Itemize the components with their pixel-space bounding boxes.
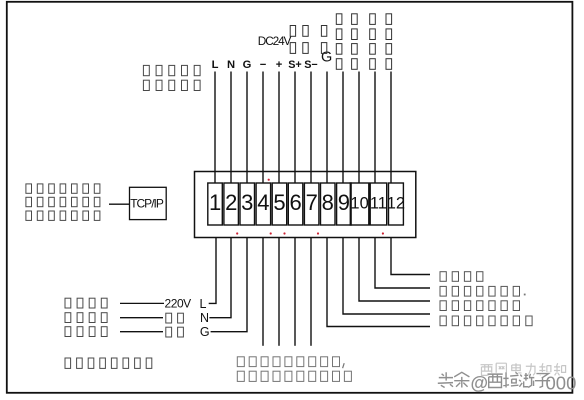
svg-text:4: 4 — [257, 190, 269, 215]
CJK caption left (3 rows x 7 boxes) — [26, 184, 100, 221]
red mark bottom strip — [382, 232, 384, 234]
terminal 7 — [304, 183, 319, 225]
svg-text:N: N — [227, 59, 235, 71]
svg-text:L: L — [212, 59, 219, 71]
wire from terminal 5 down — [278, 238, 280, 346]
vertical CJK label above terminal 8 (G) — [321, 26, 326, 54]
CJK pair row N — [166, 313, 184, 323]
terminal 8 — [321, 183, 336, 225]
svg-text:1: 1 — [209, 190, 221, 215]
terminal 3 — [240, 183, 255, 225]
svg-text:8: 8 — [322, 190, 334, 215]
CJK caption top-left (untitled glyph boxes) — [143, 65, 200, 90]
wire from caption to TCP/IP box — [109, 203, 130, 205]
wire from terminal 9 to right label row — [343, 238, 430, 315]
wire from terminal 4 down — [262, 238, 264, 346]
wire from top into terminal 1 — [214, 72, 216, 184]
red mark bottom strip — [283, 232, 285, 234]
wire from terminal 2 down to N — [209, 238, 231, 318]
vertical CJK label above terminal 11 — [370, 14, 376, 70]
wire from terminal 10 to right label row — [359, 238, 430, 302]
CJK caption right row 4 (8 boxes) — [440, 316, 532, 326]
wire from terminal 7 down — [310, 238, 312, 346]
terminal 2 — [224, 183, 239, 225]
red mark top strip — [268, 179, 270, 181]
svg-text:2: 2 — [225, 190, 237, 215]
wire to 220V label — [120, 302, 164, 304]
svg-text:L: L — [200, 297, 207, 311]
vertical CJK label above terminal 12 — [386, 14, 392, 70]
TCP/IP interface box — [130, 187, 167, 219]
CJK caption right row 3 (7 boxes) — [440, 301, 520, 311]
svg-text:TCP/IP: TCP/IP — [130, 197, 164, 211]
red mark bottom strip — [236, 232, 238, 234]
CJK caption right row 1 (4 boxes) — [440, 272, 483, 282]
wire from terminal 8 to right label row — [327, 238, 430, 327]
wire from top into terminal 10 — [358, 72, 360, 184]
wire from top into terminal 2 — [230, 72, 232, 184]
svg-text:6: 6 — [289, 190, 301, 215]
wire from top into terminal 6 — [294, 72, 296, 184]
wire from top into terminal 8 — [326, 72, 328, 184]
terminal 6 — [288, 183, 303, 225]
terminal 5 — [272, 183, 287, 225]
vertical CJK label above terminal 10 — [352, 14, 358, 70]
wire from top into terminal 11 — [374, 72, 376, 184]
CJK caption bottom-centre row 2 (10 boxes) — [237, 371, 351, 381]
wire from terminal 11 to right label row — [375, 238, 430, 289]
wire from top into terminal 7 — [310, 72, 312, 184]
vertical CJK label above terminal 6 (S+) — [290, 26, 295, 54]
terminal 12 — [387, 183, 405, 225]
svg-text:9: 9 — [338, 190, 350, 215]
terminal 1 — [208, 183, 223, 225]
CJK caption bottom-left (8 boxes) — [65, 358, 152, 368]
svg-text:DC24V: DC24V — [258, 34, 292, 48]
svg-text:5: 5 — [273, 190, 285, 215]
svg-text:N: N — [200, 311, 209, 325]
svg-text:12: 12 — [387, 195, 405, 213]
wire from terminal 12 to right label row — [391, 238, 430, 275]
terminal 10 — [350, 183, 369, 225]
wire from terminal 1 down to L — [209, 238, 216, 304]
svg-text:220V: 220V — [165, 296, 192, 310]
CJK caption bottom-centre row 1 (9 boxes + comma) — [237, 357, 344, 368]
wire row N — [120, 317, 163, 319]
watermark front text — [438, 372, 577, 393]
wire from top into terminal 4 — [262, 72, 264, 184]
svg-text:11: 11 — [370, 195, 387, 213]
terminal block outer body — [195, 172, 416, 238]
CJK caption power (3 rows x 4 boxes) — [65, 298, 107, 336]
wire from terminal 6 down — [294, 238, 296, 346]
wire from top into terminal 9 — [342, 72, 344, 184]
red mark bottom strip — [270, 232, 272, 234]
terminal 9 — [337, 183, 352, 225]
vertical CJK label above terminal 9 — [336, 14, 342, 70]
svg-text:10: 10 — [350, 195, 368, 213]
svg-text:G: G — [200, 325, 210, 339]
svg-text:+: + — [276, 59, 283, 71]
wire from top into terminal 5 — [278, 72, 280, 184]
wire from top into terminal 3 — [246, 72, 248, 184]
wire row G — [120, 331, 163, 333]
svg-text:G: G — [243, 59, 252, 71]
svg-text:000: 000 — [546, 373, 577, 394]
terminal 11 — [370, 183, 387, 225]
svg-text:S−: S− — [304, 59, 318, 71]
svg-text:@: @ — [471, 373, 489, 393]
vertical CJK label above terminal 7 (S-) — [303, 26, 308, 54]
red mark bottom strip — [317, 232, 319, 234]
svg-text:7: 7 — [306, 190, 318, 215]
svg-text:S+: S+ — [288, 59, 302, 71]
svg-text:−: − — [260, 59, 267, 71]
svg-text:3: 3 — [241, 190, 253, 215]
CJK pair row G — [166, 327, 184, 337]
terminal 4 — [256, 183, 271, 225]
watermark back text — [481, 363, 566, 375]
CJK caption right row 2 (7 boxes + dot) — [440, 286, 526, 296]
wire from terminal 3 down to G — [211, 238, 247, 332]
wire from top into terminal 12 — [390, 72, 392, 184]
